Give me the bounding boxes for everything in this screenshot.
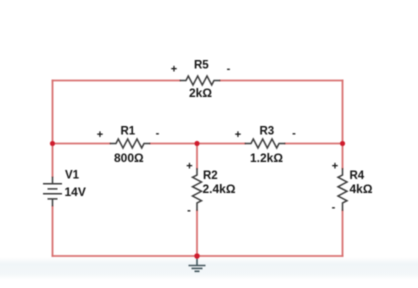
svg-text:R1: R1 (121, 126, 136, 138)
svg-text:-: - (332, 201, 336, 213)
svg-text:V1: V1 (65, 170, 80, 182)
svg-text:R4: R4 (350, 170, 365, 182)
svg-text:R3: R3 (260, 126, 275, 138)
svg-text:R2: R2 (203, 170, 218, 182)
svg-text:-: - (187, 204, 191, 216)
svg-text:14V: 14V (65, 185, 86, 199)
svg-text:1.2kΩ: 1.2kΩ (250, 151, 283, 165)
svg-text:2kΩ: 2kΩ (189, 86, 212, 100)
svg-text:2.4kΩ: 2.4kΩ (203, 182, 236, 196)
svg-text:4kΩ: 4kΩ (350, 182, 373, 196)
svg-text:-: - (292, 127, 296, 139)
svg-text:800Ω: 800Ω (114, 151, 144, 165)
svg-text:+: + (332, 161, 338, 173)
svg-text:+: + (235, 129, 241, 141)
svg-text:R5: R5 (194, 60, 209, 72)
svg-text:+: + (186, 161, 192, 173)
svg-text:+: + (171, 64, 177, 76)
svg-text:-: - (156, 127, 160, 139)
svg-text:-: - (227, 63, 231, 75)
svg-text:+: + (97, 129, 103, 141)
